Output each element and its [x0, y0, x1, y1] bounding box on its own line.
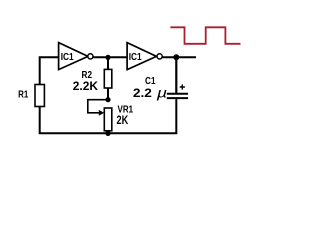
- node junction VR1 bottom on bus: [105, 131, 110, 136]
- wire R2 bottom lead: [107, 88, 109, 100]
- svg-text:R1: R1: [18, 88, 28, 100]
- svg-text:2.2K: 2.2K: [73, 79, 99, 93]
- node junction between R2 and VR1: [105, 97, 110, 102]
- svg-text:2K: 2K: [117, 113, 129, 127]
- wire R2 top lead: [107, 57, 109, 69]
- capacitor plus polarity mark: [180, 84, 185, 89]
- wire VR1 bottom lead: [107, 131, 109, 133]
- wire VR1 wiper arm: [88, 100, 108, 113]
- capacitor C1 top plate: [167, 93, 188, 95]
- node output junction: [173, 54, 179, 60]
- wire R1 bottom lead and bottom bus to right corner: [40, 99, 177, 133]
- VR1 wiper arrowhead: [99, 110, 104, 116]
- wire output stub: [162, 56, 196, 58]
- svg-text:µ: µ: [157, 84, 168, 100]
- inverter bubble (first): [88, 54, 93, 59]
- svg-text:IC1: IC1: [129, 51, 142, 63]
- square wave output waveform (red): [170, 27, 240, 44]
- op-amp U1 : inverter IC1 (first) triangle: [59, 43, 88, 70]
- resistor R1: [35, 85, 44, 107]
- potentiometer VR1 body: [104, 108, 112, 131]
- wire top-left corner and left vertical to R1: [40, 57, 59, 84]
- inverter bubble (second): [157, 54, 162, 59]
- svg-text:2.2: 2.2: [133, 86, 152, 100]
- node junction on main wire at R2: [105, 55, 110, 60]
- wire right vertical from output junction to capacitor: [175, 57, 177, 93]
- capacitor C1 bottom plate: [167, 97, 188, 99]
- svg-text:IC1: IC1: [61, 51, 74, 63]
- op-amp U2 : inverter IC1 (second) triangle: [127, 43, 156, 70]
- resistor R2: [104, 69, 112, 88]
- wire between inverters: [93, 56, 127, 58]
